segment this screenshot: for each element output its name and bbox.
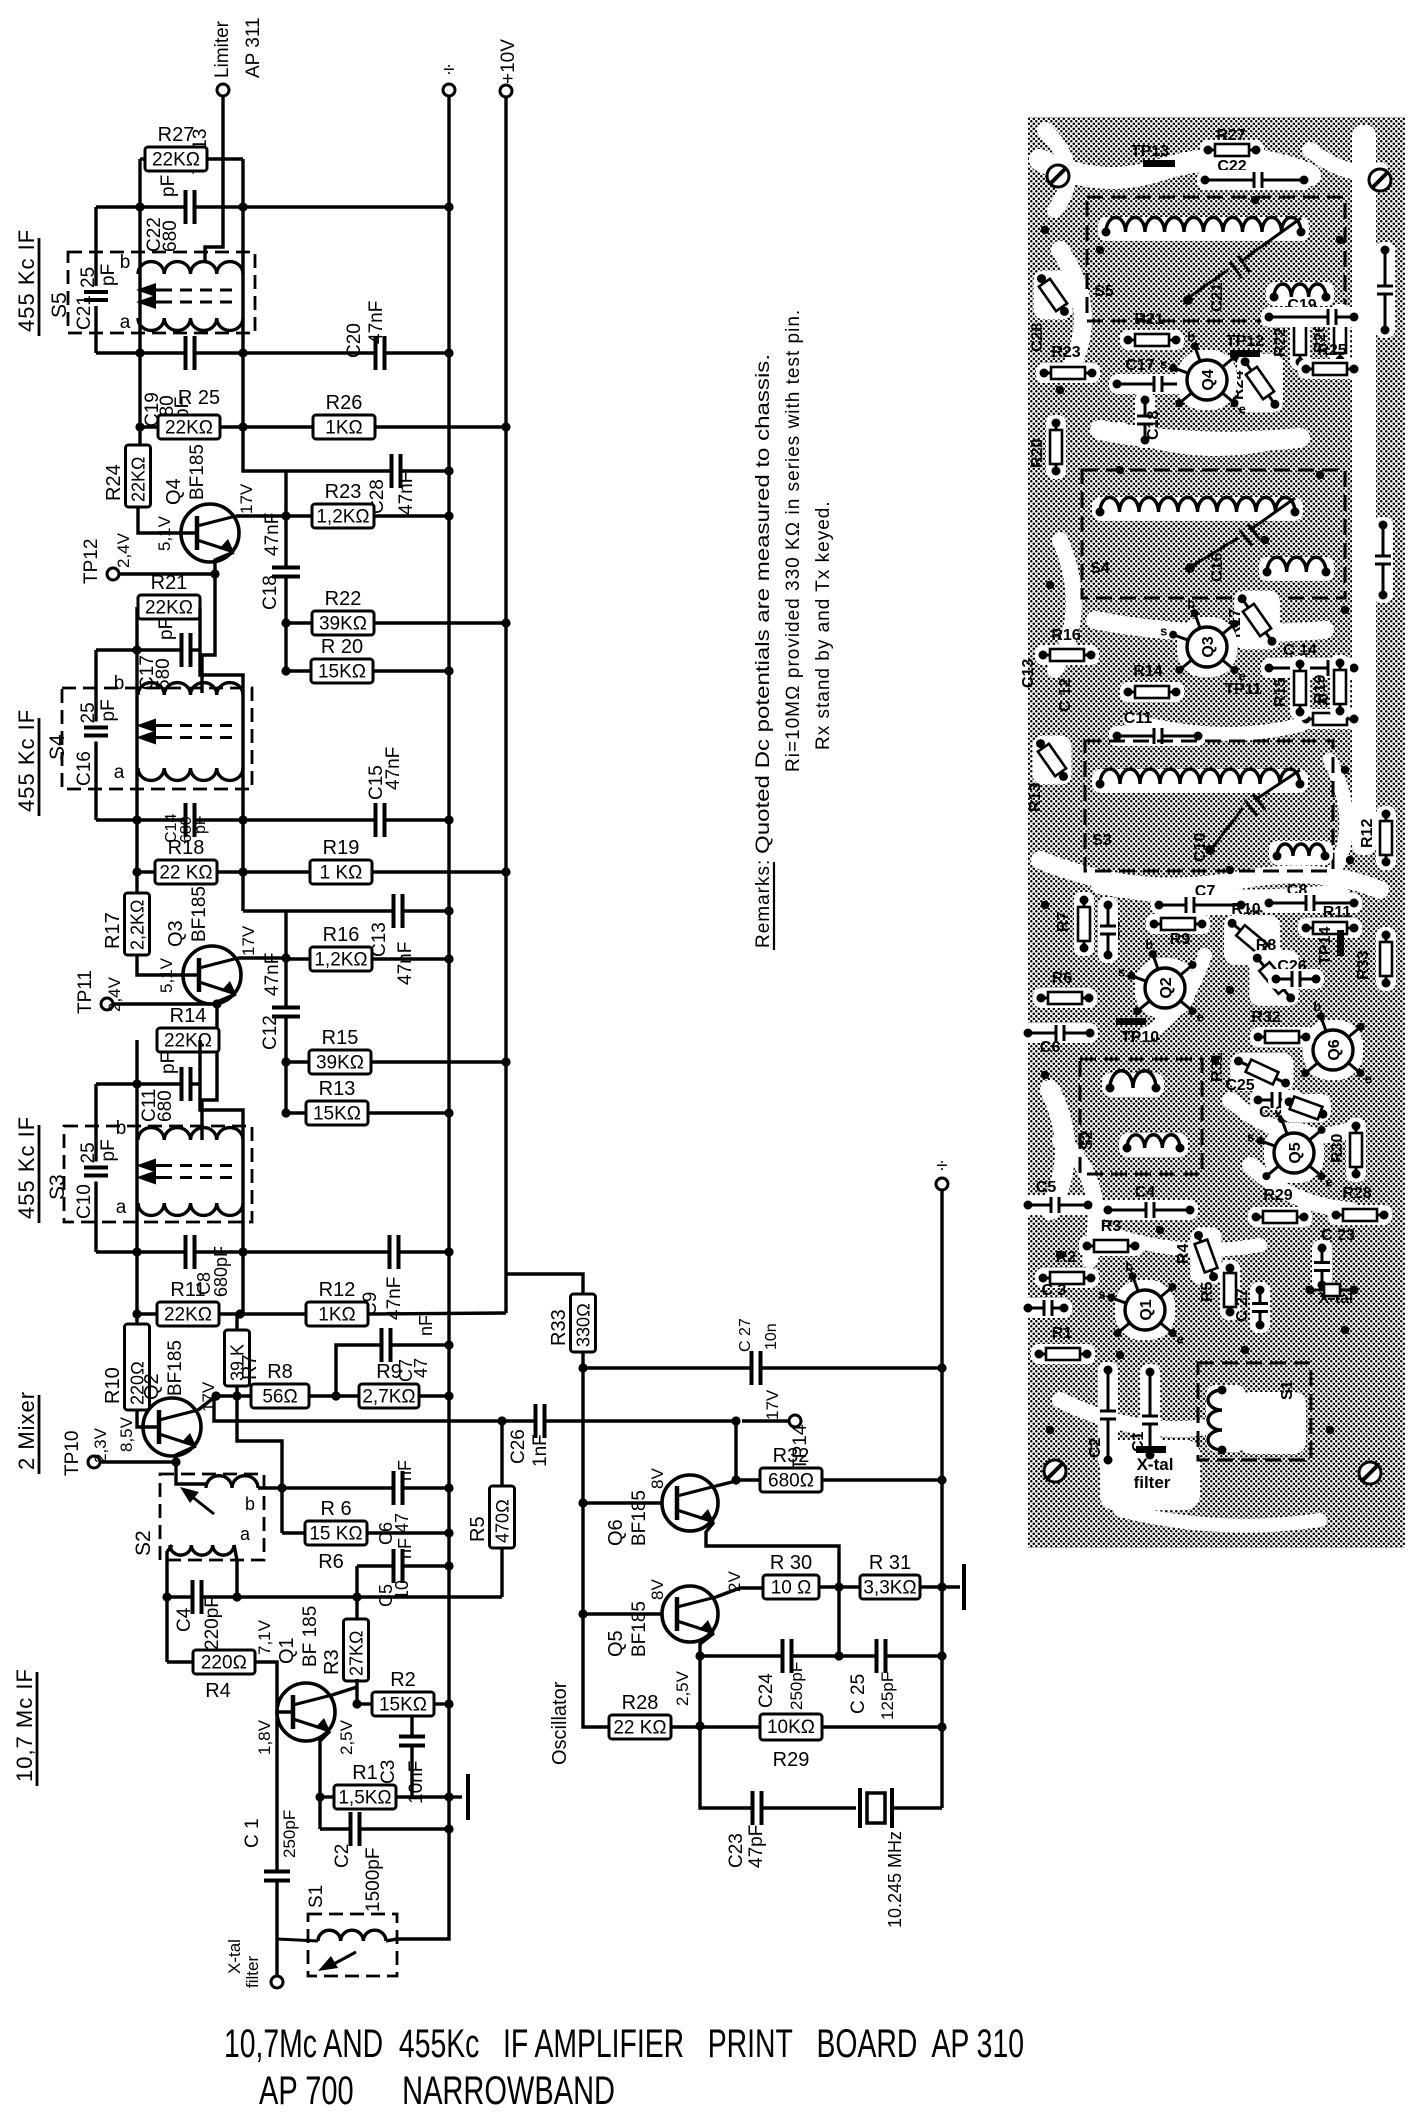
pcb screw top-left [1047,165,1069,187]
svg-text:C11: C11 [1124,710,1153,727]
wire Q2 emitter to S2 [176,1446,206,1484]
svg-text:pF: pF [192,815,209,834]
svg-text:pF: pF [158,175,179,197]
pcb S1 coil [1206,1385,1246,1452]
capacitor C16 tuning [94,688,97,722]
pcb C1 [1140,1364,1160,1463]
svg-text:Q6: Q6 [1326,1039,1343,1060]
resistor R16 [310,947,372,971]
svg-text:10nF: 10nF [406,1761,427,1804]
resistor R30 [763,1575,819,1599]
svg-text:C10: C10 [1192,833,1209,862]
svg-text:17V: 17V [237,483,256,514]
svg-text:1KΩ: 1KΩ [325,418,362,439]
svg-text:Q4: Q4 [1200,369,1217,390]
svg-text:39 K: 39 K [228,1344,248,1381]
svg-text:TP11: TP11 [75,970,96,1014]
wire R27 right [207,157,243,160]
transistor Q1 [277,1683,335,1741]
capacitor C21 tuning [94,252,97,286]
pcb C18 [1135,392,1155,448]
svg-text:R2: R2 [1056,1249,1077,1266]
svg-text:Q4: Q4 [163,478,185,505]
svg-text:C3: C3 [378,1760,399,1784]
svg-text:S1: S1 [306,1885,327,1908]
resistor R1 [334,1785,396,1809]
svg-text:47nF: 47nF [366,301,387,344]
svg-text:AP 311: AP 311 [243,17,264,78]
transistor Q2 (pcb) [1135,958,1195,1018]
resistor R2 [372,1692,434,1716]
pcb white trace channels [1352,125,1376,855]
svg-text:C20: C20 [344,323,365,358]
wire emitter column down [698,1656,701,1726]
svg-text:R 6: R 6 [320,1498,351,1520]
svg-text:25: 25 [78,1142,99,1163]
transformer S2 dashed box [160,1474,264,1560]
wire C4 row [167,1595,193,1598]
svg-text:R 25: R 25 [178,387,220,409]
svg-text:C6: C6 [1040,1039,1061,1056]
svg-text:e: e [1239,669,1246,684]
svg-text:C 27: C 27 [1234,1288,1251,1322]
svg-text:s: s [1160,356,1167,371]
wire C2 row [320,1827,350,1830]
svg-text:C13: C13 [1020,659,1037,688]
capacitor C11 [180,1067,184,1101]
resistor R29 [760,1714,822,1740]
svg-text:S5: S5 [1094,283,1114,300]
pcb stray pads [1041,226,1049,234]
svg-text:b: b [114,673,125,694]
svg-text:330Ω: 330Ω [574,1303,594,1347]
wire bus top of S5 [94,207,97,252]
svg-text:R15: R15 [322,1027,359,1049]
terminal: chassis + [443,84,455,96]
svg-text:22KΩ: 22KΩ [164,1305,212,1326]
svg-text:R29: R29 [773,1749,810,1771]
svg-text:R8: R8 [267,1361,293,1383]
svg-text:680: 680 [155,1090,176,1122]
svg-text:Q3: Q3 [165,920,187,947]
wire collector column stage A [284,471,287,566]
stage C right line [241,1140,244,1314]
svg-text:R11: R11 [170,1279,205,1301]
svg-text:10 Ω: 10 Ω [771,1578,812,1599]
capacitor C20 [374,336,378,370]
svg-text:R 30: R 30 [770,1552,812,1574]
svg-text:R23: R23 [1051,344,1080,361]
node bus1 B (C17) [96,648,182,651]
coil S2 a [170,1545,234,1555]
transistor Q3 [183,946,241,1004]
svg-text:R15: R15 [1272,678,1289,707]
wire R10 to Q2 base [137,1410,159,1427]
svg-text:Q5: Q5 [1287,1142,1304,1163]
wire Q1 base down to C1 and X-tal [275,1712,278,1870]
pcb S3 small coil [1269,841,1333,865]
transistor Q2 [143,1398,201,1456]
svg-text:22KΩ: 22KΩ [164,1031,212,1052]
svg-text:Q1: Q1 [276,1637,298,1664]
wire right rail [940,1190,943,1808]
svg-text:R26: R26 [326,392,363,414]
svg-text:Q2: Q2 [1158,977,1175,998]
terminal X-tal filter input [271,1976,283,1988]
svg-text:10,7 Mc IF: 10,7 Mc IF [12,1668,37,1782]
resistor R12 [306,1302,368,1326]
wire C27 row [583,1366,752,1369]
svg-text:2,7KΩ: 2,7KΩ [362,1387,415,1408]
svg-text:1,8V: 1,8V [255,1719,274,1755]
svg-text:1,2KΩ: 1,2KΩ [316,507,369,528]
wire C28 row [243,470,286,471]
wire TP13 to S5 tap [205,96,223,262]
svg-text:470Ω: 470Ω [493,1499,513,1543]
transistor Q6 (pcb) [1303,1020,1363,1080]
svg-text:e: e [1239,402,1246,417]
capacitor C12 [272,1006,300,1010]
svg-text:C16: C16 [1209,553,1226,582]
svg-text:27KΩ: 27KΩ [347,1631,367,1676]
svg-text:R22: R22 [325,588,362,610]
pcb S5 small coil [1266,282,1334,306]
svg-text:Q6: Q6 [605,1519,627,1546]
svg-text:Remarks:: Remarks: [753,859,774,948]
svg-text:R5: R5 [1199,1281,1216,1302]
svg-text:÷: ÷ [444,59,455,81]
svg-text:R18: R18 [168,837,205,859]
terminal TP14 [789,1415,801,1427]
IF transformer S4 dashed box [62,688,252,789]
wire R33 bottom node [581,1352,584,1726]
svg-text:pF: pF [158,1052,179,1074]
IF transformer S3 dashed box [64,1126,252,1222]
svg-text:b: b [1313,999,1321,1014]
svg-text:39KΩ: 39KΩ [316,1053,364,1074]
wire R7 down to S2 [237,1396,282,1488]
svg-text:R32: R32 [1251,1009,1280,1026]
resistor R10 [125,1324,150,1410]
capacitor C18 [272,566,300,570]
capacitor C1 [264,1870,290,1874]
pcb R24 [1237,354,1283,413]
svg-text:R1: R1 [352,1762,378,1784]
svg-text:X-tal: X-tal [1137,1455,1174,1474]
svg-text:R25: R25 [1317,342,1346,359]
svg-text:pF: pF [156,618,177,640]
core dashes S4 [160,724,240,727]
pcb S2 coil large [1119,1133,1188,1157]
svg-text:R32: R32 [773,1445,810,1467]
svg-text:R4: R4 [1175,1243,1192,1264]
svg-text:C 25: C 25 [848,1674,869,1714]
capacitor C26 [534,1404,538,1438]
resistor R8 [251,1384,309,1408]
svg-text:filter: filter [243,1956,262,1988]
capacitor C5 [392,1549,396,1583]
svg-text:47pF: 47pF [746,1825,767,1868]
svg-text:C25: C25 [1225,1077,1254,1094]
wire bus top of S4 [94,650,97,688]
svg-text:b: b [1187,329,1195,344]
svg-text:47nF: 47nF [396,472,417,515]
svg-text:56Ω: 56Ω [262,1387,297,1408]
resistor R20 [311,659,373,683]
resistor R21 [138,595,200,619]
PCB halftone board [1028,117,1405,1548]
svg-text:R 20: R 20 [321,636,363,658]
svg-text:R21: R21 [151,572,188,594]
wire R6 branch [280,1488,283,1533]
capacitor C7 [380,1328,384,1362]
svg-text:220Ω: 220Ω [201,1653,247,1674]
svg-text:8V: 8V [648,1579,667,1600]
svg-text:C5: C5 [1036,1179,1057,1196]
pcb S4 coil [1092,497,1303,521]
svg-text:R19: R19 [1312,675,1329,704]
capacitor C6 [392,1471,396,1505]
svg-text:455 Kc IF: 455 Kc IF [14,709,39,812]
svg-text:nF: nF [395,1538,415,1559]
svg-text:X-tal: X-tal [225,1939,244,1974]
svg-text:47: 47 [411,1358,431,1378]
resistor R31 [860,1575,920,1599]
capacitor C22 [184,190,188,224]
resistor R22 [312,611,374,635]
coil S3 secondary b [138,1128,243,1140]
svg-text:a: a [240,1524,251,1544]
wire bus top of S3 [94,1084,97,1126]
capacitor C28 [390,454,394,488]
svg-text:47: 47 [392,1513,412,1533]
resistor R15 [309,1050,371,1074]
svg-text:2,4V: 2,4V [114,532,133,568]
wire S2 b right / C6 row [258,1486,282,1489]
resistor R17 [125,893,150,955]
svg-text:b: b [116,1118,127,1139]
svg-text:680pF: 680pF [211,1246,231,1297]
terminal TP12 [107,568,119,580]
svg-text:R30: R30 [1329,1134,1346,1163]
svg-text:2,5V: 2,5V [673,1670,692,1706]
capacitor C10 tuning [94,1126,97,1162]
svg-text:pF: pF [98,264,119,286]
svg-text:Limiter: Limiter [212,20,233,78]
svg-text:25: 25 [78,702,99,723]
svg-text:C26: C26 [508,1429,529,1464]
svg-text:C23: C23 [726,1833,747,1868]
svg-text:nF: nF [416,1315,436,1336]
svg-text:1500pF: 1500pF [363,1848,384,1912]
transistor Q5 (pcb) [1264,1123,1324,1183]
resistor R23 [312,504,374,528]
svg-text:17V: 17V [239,925,258,956]
svg-text:680: 680 [160,220,181,252]
capacitor C4 [191,1580,195,1614]
stage B right line [241,695,244,911]
svg-text:a: a [114,762,125,783]
tuning arrows S3 [136,1159,156,1173]
svg-text:BF 185: BF 185 [300,1606,321,1667]
pcb S4 shield box [1082,470,1345,598]
pcb S4 small coil [1259,557,1334,581]
svg-text:R33: R33 [548,1309,570,1346]
transistor Q6 [662,1475,718,1531]
svg-text:Quoted Dc potentials are measu: Quoted Dc potentials are measured to cha… [753,354,774,854]
resistor R32 [760,1468,822,1492]
svg-text:R7: R7 [1055,911,1072,932]
wire Q6 emitter [706,1522,839,1586]
capacitor C23 [751,1791,755,1825]
wire C24/C25 row [700,1654,782,1657]
svg-text:22KΩ: 22KΩ [152,150,200,171]
svg-text:S2: S2 [1079,1130,1096,1150]
transistor Q5 [662,1586,718,1642]
resistor R25 [158,415,220,439]
svg-text:C18: C18 [260,575,281,610]
svg-text:BF185: BF185 [187,444,208,500]
svg-text:1nF: 1nF [530,1434,551,1467]
svg-text:250pF: 250pF [280,1810,299,1858]
wire R27 left / stage A left line [140,157,145,160]
pcb S5 coil [1098,217,1309,241]
pcb S2 shield box [1080,1059,1202,1174]
pcb C21 trimmer [1240,218,1301,262]
svg-text:C21: C21 [74,295,95,330]
wire R17 to Q3 base [137,955,199,975]
svg-text:455 Kc IF: 455 Kc IF [14,229,39,332]
node bus2 B (C14) [96,818,185,821]
svg-text:R14: R14 [170,1005,207,1027]
svg-text:R12: R12 [1359,819,1376,848]
svg-text:s: s [1118,964,1125,979]
svg-text:R19: R19 [323,837,360,859]
svg-text:39KΩ: 39KΩ [319,614,367,635]
core dashes S3 [160,1164,240,1167]
svg-text:S5: S5 [48,292,71,318]
capacitor C13 [392,894,396,928]
svg-text:C21: C21 [1209,283,1226,312]
transistor Q3 (pcb) [1177,617,1237,677]
svg-text:2,2KΩ: 2,2KΩ [128,900,148,950]
svg-text:3,3KΩ: 3,3KΩ [863,1578,916,1599]
svg-text:b: b [1125,1259,1133,1274]
svg-text:5,1V: 5,1V [155,515,174,551]
capacitor C27 [750,1351,754,1385]
capacitor C17 [180,633,184,667]
svg-text:R13: R13 [319,1078,356,1100]
svg-text:2 Mixer: 2 Mixer [14,1391,39,1470]
coil S4 primary a [138,768,243,780]
wire R8 row [216,1394,250,1397]
svg-text:R17: R17 [102,912,124,949]
svg-text:15KΩ: 15KΩ [313,1104,361,1125]
svg-text:S3: S3 [46,1174,69,1200]
svg-text:47nF: 47nF [383,747,404,790]
wire R24 to Q4 base [138,507,197,533]
pcb C2 [1098,1362,1118,1468]
svg-text:S1: S1 [1279,1380,1296,1400]
svg-text:s: s [1098,1286,1105,1301]
svg-text:1,5KΩ: 1,5KΩ [338,1788,391,1809]
svg-text:25: 25 [78,267,99,288]
wire: +10V rail [504,97,507,1313]
svg-text:a: a [116,1197,127,1218]
svg-text:÷: ÷ [937,1155,948,1177]
resistor R33 [571,1294,596,1352]
capacitor C24 [781,1639,785,1673]
svg-text:R5: R5 [467,1516,489,1542]
pcb S3 shield box [1085,741,1333,871]
svg-text:10,7Mc AND 455Kc IF AMPLIFI: 10,7Mc AND 455Kc IF AMPLIFIER PRINT BOAR… [224,2022,1024,2066]
svg-text:Oscillator: Oscillator [549,1681,571,1765]
svg-text:47nF: 47nF [262,513,283,556]
svg-text:1 KΩ: 1 KΩ [320,863,363,884]
wire S2 a left down [167,1545,172,1662]
svg-text:R31: R31 [1209,1053,1226,1082]
resistor R13 [306,1101,368,1125]
svg-text:Q3: Q3 [1200,636,1217,657]
svg-text:22 KΩ: 22 KΩ [159,863,212,884]
svg-text:R10: R10 [102,1367,124,1404]
svg-text:R29: R29 [1263,1187,1292,1204]
coil S5 primary a [138,318,243,330]
wire: chassis rail (left) [447,96,450,1829]
svg-text:R3: R3 [1101,1218,1122,1235]
svg-text:C2: C2 [332,1844,353,1868]
svg-text:15 KΩ: 15 KΩ [309,1524,362,1545]
svg-text:BF185: BF185 [629,1601,650,1657]
svg-text:R28: R28 [622,1692,659,1714]
svg-text:nF: nF [395,1460,415,1481]
capacitor C14 [184,803,188,837]
svg-text:2,3V: 2,3V [91,1427,110,1463]
svg-text:BF185: BF185 [189,886,210,942]
wire S1 left tap [277,1939,318,1941]
wire Q3 emitter [202,994,236,1140]
svg-text:10KΩ: 10KΩ [767,1717,815,1738]
wire C5 row [357,1564,394,1567]
IF transformer S5 dashed box [68,252,255,333]
svg-text:22KΩ: 22KΩ [145,598,193,619]
terminal TP11 [101,998,113,1010]
svg-text:C 1: C 1 [242,1818,263,1848]
svg-text:R4: R4 [205,1680,231,1702]
svg-text:250pF: 250pF [787,1662,806,1710]
resistor R14 [157,1028,219,1052]
transistor Q1 (pcb) [1115,1280,1175,1340]
pcb S5 shield box [1087,197,1345,321]
pcb S1 shield box [1198,1363,1311,1460]
svg-text:47nF: 47nF [395,942,416,985]
svg-text:R2: R2 [390,1669,416,1691]
node bus1 C (C11) [96,1082,182,1085]
svg-text:C16: C16 [74,751,95,786]
transformer S1 dashed box [308,1914,397,1976]
svg-text:TP10: TP10 [62,1431,83,1476]
coil S4 secondary b [138,683,243,695]
pcb C6 [1020,1023,1098,1043]
wire Q4 collector node [236,514,286,517]
capacitor C25 [875,1639,879,1673]
svg-text:C 27: C 27 [737,1318,754,1352]
svg-text:C24: C24 [756,1673,777,1708]
svg-text:10n: 10n [763,1323,780,1350]
svg-text:R28: R28 [1342,1185,1371,1202]
svg-text:C 12: C 12 [1057,678,1074,712]
node bus2 A (C19) [96,351,185,354]
